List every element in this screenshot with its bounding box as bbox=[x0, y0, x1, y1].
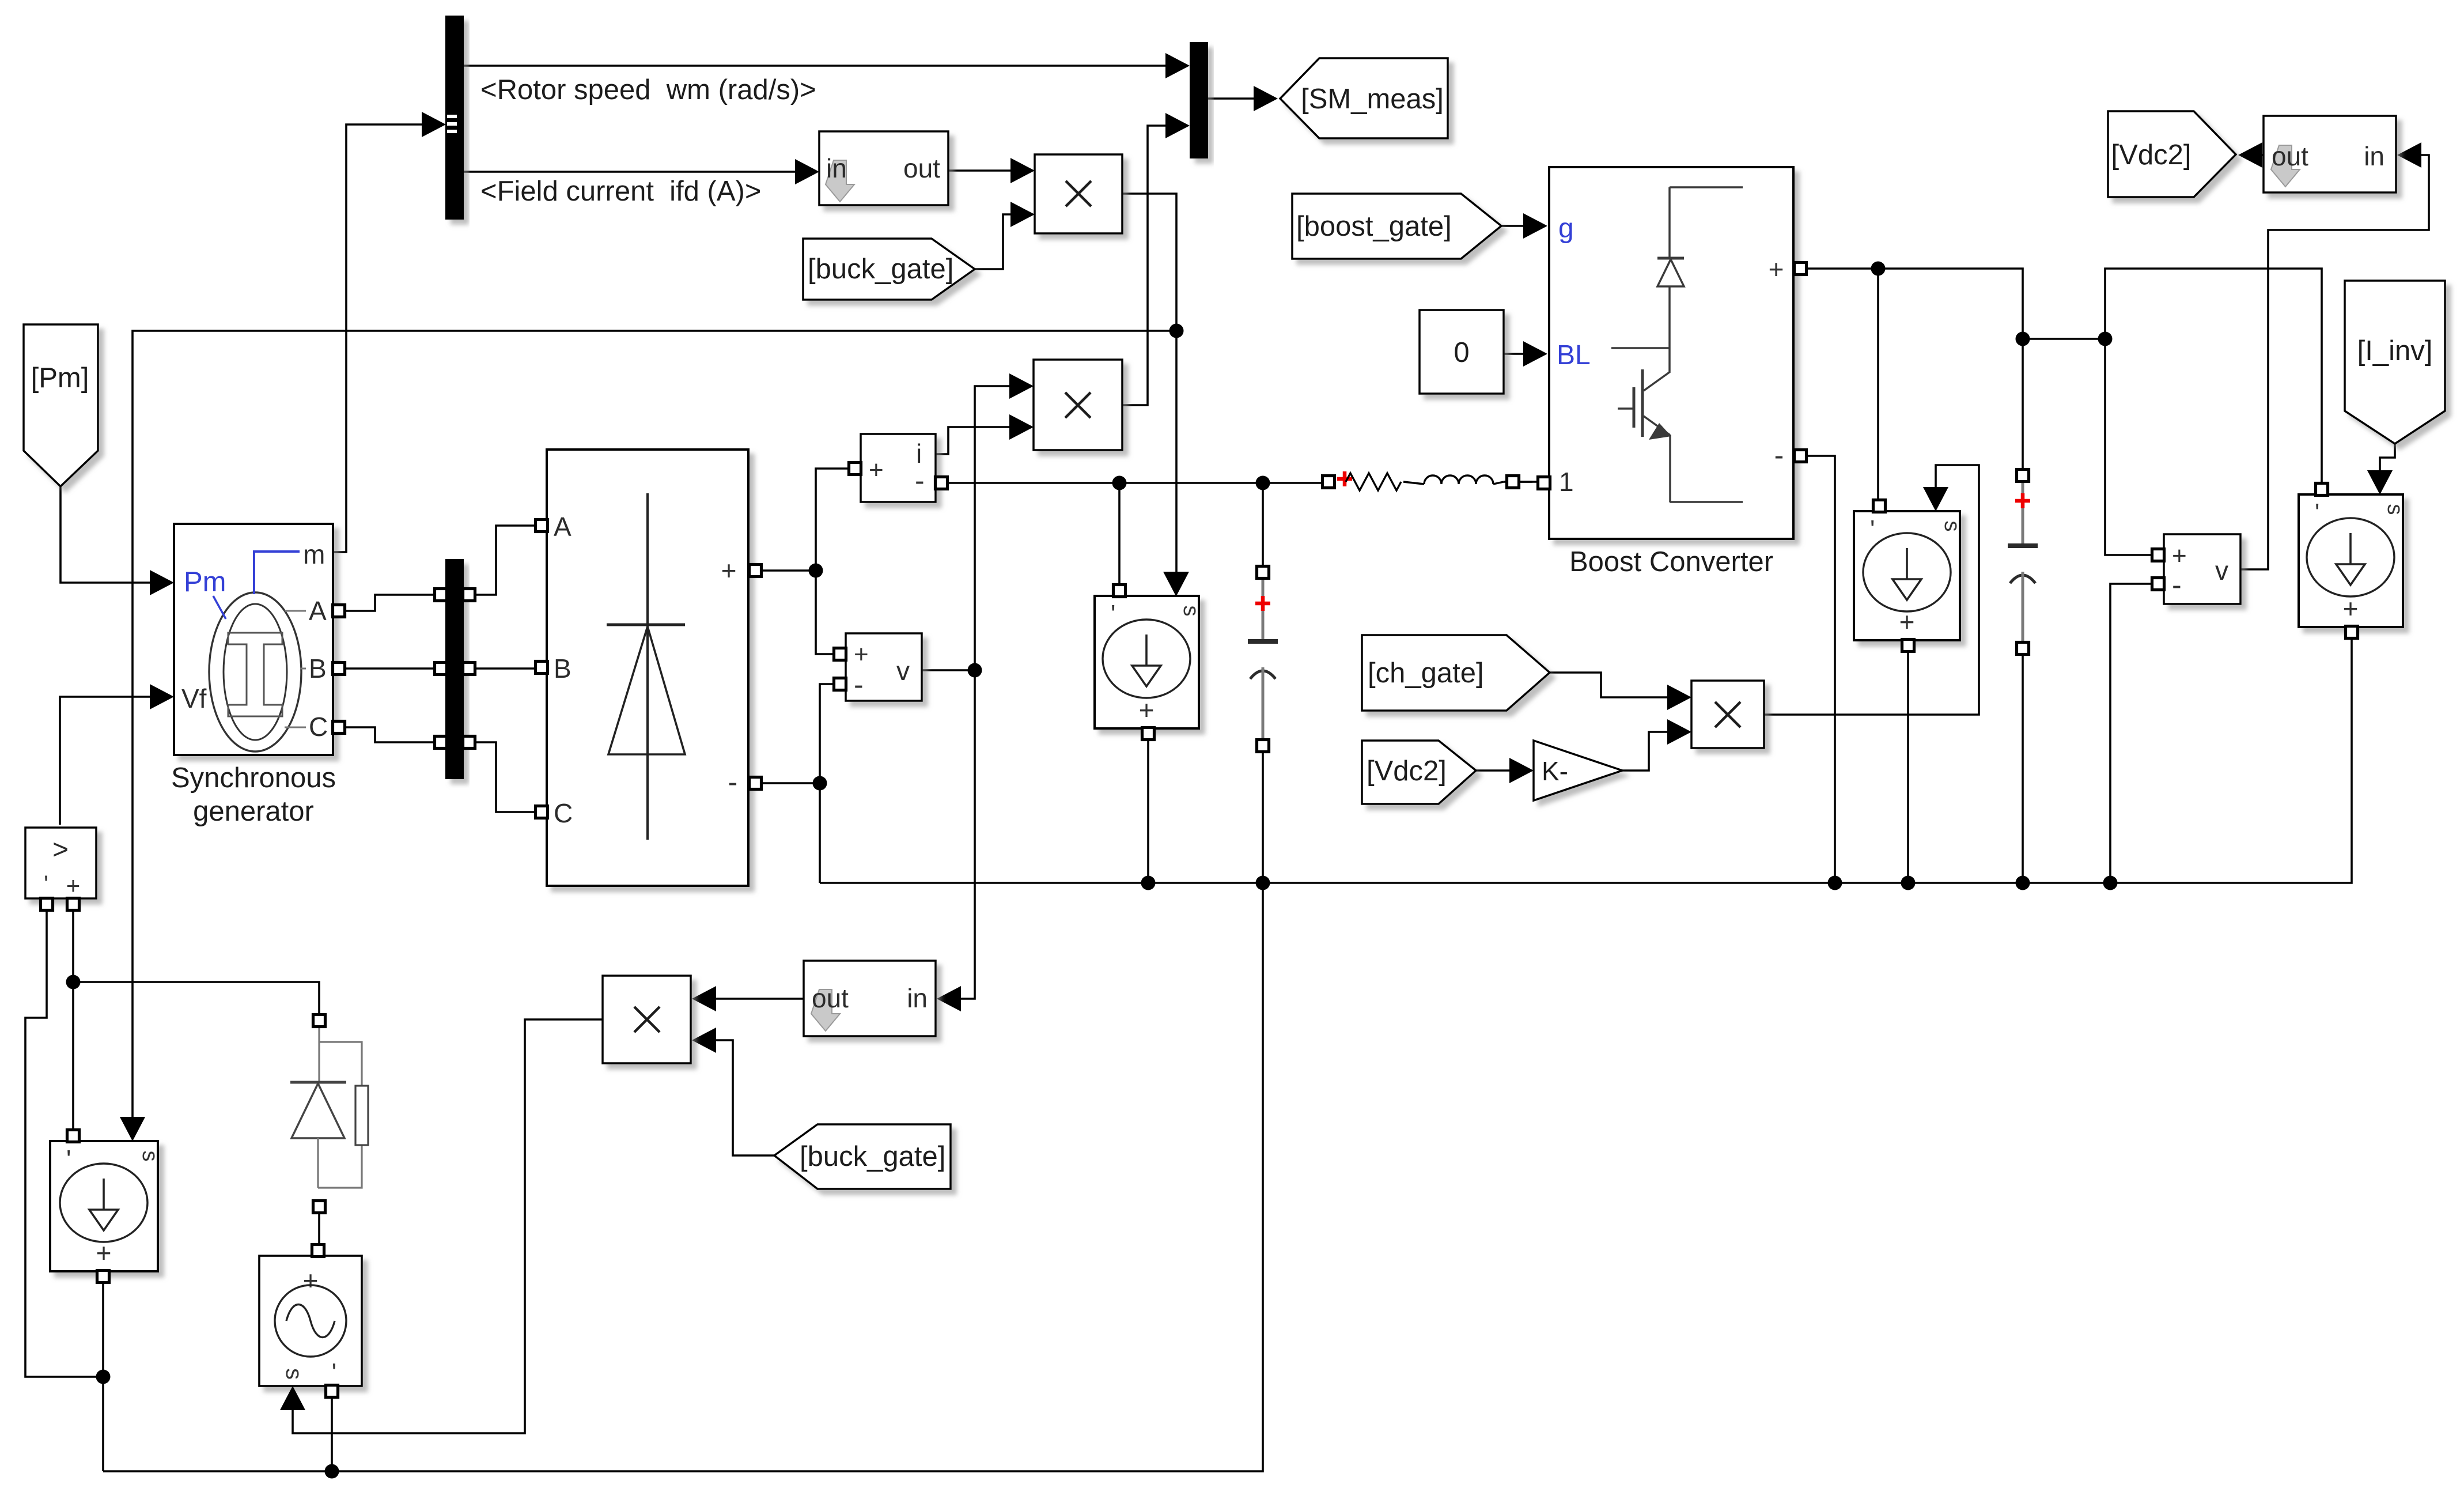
wire mux output to tag [SM_meas] bbox=[1208, 86, 1278, 111]
wire node to current measurement CM1 + input bbox=[816, 469, 848, 571]
wire node v to product X2 input 1 bbox=[975, 373, 1034, 670]
current measurement CM1 bbox=[849, 434, 948, 502]
wire voltage measurement VM2 output to rate transition RT2 in bbox=[2240, 142, 2429, 569]
wire field diode to AC source + bbox=[318, 1213, 320, 1244]
signal label field current bbox=[480, 176, 761, 207]
voltage measurement VM1 bbox=[834, 633, 922, 701]
field diode with snubber resistor bbox=[290, 1015, 368, 1213]
wire current measurement CM1 i-output to product X2 input 2 bbox=[936, 414, 1034, 454]
svg-text:[Pm]: [Pm] bbox=[31, 362, 89, 394]
svg-text:A: A bbox=[309, 596, 327, 626]
svg-text:generator: generator bbox=[193, 796, 314, 827]
current source CS2 bbox=[1095, 572, 1203, 740]
boost converter label bbox=[1569, 546, 1773, 577]
svg-text:s: s bbox=[1179, 606, 1203, 617]
svg-text:+: + bbox=[303, 1266, 319, 1296]
svg-text:K-: K- bbox=[1542, 756, 1568, 786]
current source CS3 bbox=[1854, 487, 1964, 652]
from tag [Pm] bbox=[24, 324, 98, 486]
svg-text:s: s bbox=[1940, 521, 1964, 532]
svg-text:+: + bbox=[721, 556, 737, 586]
wire AC source right terminal to bottom rail bbox=[331, 1397, 333, 1471]
svg-text:Boost Converter: Boost Converter bbox=[1569, 546, 1773, 577]
field voltage source block bbox=[25, 828, 96, 911]
product X4 bbox=[1691, 681, 1764, 748]
from tag [boost_gate] bbox=[1292, 194, 1501, 259]
wire boost + rail right to CS4 left terminal bbox=[2105, 269, 2322, 484]
rate transition RT3 bbox=[804, 961, 936, 1036]
wire Vf source right terminal down bbox=[66, 910, 81, 1130]
wire voltage measurement VM1 output node bbox=[922, 663, 982, 678]
wire boost + rail to VM2 + input bbox=[2105, 339, 2151, 555]
svg-text:[ch_gate]: [ch_gate] bbox=[1368, 658, 1484, 689]
svg-text:in: in bbox=[826, 153, 847, 183]
svg-text:': ' bbox=[1111, 600, 1115, 628]
diode rectifier bridge bbox=[536, 450, 762, 886]
wire DC+ rail to CS2 left terminal bbox=[1118, 483, 1121, 587]
svg-text:v: v bbox=[2215, 556, 2228, 586]
series inductor L bbox=[1403, 475, 1532, 488]
svg-text:s: s bbox=[2383, 504, 2407, 515]
wire capacitor C2 bottom to DC- rail bbox=[2022, 654, 2024, 883]
svg-text:[boost_gate]: [boost_gate] bbox=[1296, 211, 1452, 242]
svg-text:Pm: Pm bbox=[184, 567, 226, 598]
wire tag [I_inv] to current source CS4 s-input bbox=[2367, 444, 2395, 494]
svg-text:[I_inv]: [I_inv] bbox=[2357, 335, 2433, 367]
from tag [buck_gate] bottom bbox=[774, 1124, 951, 1189]
wire Vf source to generator Vf input bbox=[60, 684, 174, 825]
svg-text:B: B bbox=[309, 654, 327, 683]
svg-text:out: out bbox=[903, 153, 940, 183]
wire node v to rate transition RT3 in bbox=[937, 670, 975, 1011]
svg-text:out: out bbox=[812, 983, 849, 1013]
goto tag [SM_meas] bbox=[1280, 58, 1448, 138]
svg-text:Synchronous: Synchronous bbox=[171, 762, 336, 794]
from tag [ch_gate] bbox=[1362, 635, 1550, 711]
current source CS1 bbox=[50, 1117, 162, 1283]
svg-text:-: - bbox=[2172, 569, 2182, 601]
wire capacitor C1 bottom to DC- rail bbox=[1262, 751, 1264, 883]
synchronous generator block bbox=[174, 524, 345, 755]
svg-text:+: + bbox=[1899, 607, 1915, 637]
svg-text:+: + bbox=[869, 456, 884, 484]
wire bar to rectifier C bbox=[475, 742, 535, 812]
svg-text:+: + bbox=[2172, 542, 2187, 570]
svg-text:[Vdc2]: [Vdc2] bbox=[2111, 139, 2192, 171]
svg-text:+: + bbox=[96, 1238, 112, 1268]
svg-text:in: in bbox=[907, 983, 928, 1013]
wire CS3 bottom terminal to DC- rail bbox=[1907, 652, 1909, 883]
synchronous generator label bbox=[171, 762, 336, 827]
wire gain K output to product X4 input 2 bbox=[1622, 719, 1691, 771]
svg-text:': ' bbox=[1870, 515, 1875, 543]
wire constant 0 to boost BL-input bbox=[1504, 341, 1547, 367]
svg-text:-: - bbox=[854, 669, 864, 701]
svg-text:': ' bbox=[44, 870, 48, 897]
from tag [I_inv] bbox=[2345, 281, 2445, 444]
wire DC- rail bbox=[820, 639, 2352, 890]
svg-text:1: 1 bbox=[1559, 467, 1574, 497]
wire tag [Vdc2] to gain K bbox=[1476, 758, 1534, 783]
svg-text:BL: BL bbox=[1557, 340, 1591, 371]
signal label rotor speed bbox=[480, 74, 816, 105]
wire node to field diode branch bbox=[73, 982, 319, 1014]
wire bus selector field-current to rate transition RT1 bbox=[464, 159, 819, 184]
svg-text:in: in bbox=[2364, 141, 2384, 171]
wire CS1 bottom terminal to bottom rail bbox=[102, 1283, 104, 1471]
wire tag [ch_gate] to product X4 input 1 bbox=[1550, 673, 1691, 710]
svg-text:+: + bbox=[854, 640, 869, 669]
wire RL branch to boost input 1 bbox=[1519, 481, 1538, 483]
wire tag [buck_gate] to product X1 input 2 bbox=[975, 202, 1035, 269]
wire tag [Pm] to generator Pm input bbox=[60, 486, 174, 595]
wire tag [buck_gate] bottom to product X3 input 2 bbox=[692, 1028, 774, 1155]
svg-text:': ' bbox=[66, 1145, 71, 1173]
wire product X3 output to AC source s-input bbox=[280, 1019, 603, 1433]
svg-text:s: s bbox=[138, 1151, 162, 1162]
svg-text:A: A bbox=[554, 512, 571, 542]
wire VM1 - input to rectifier - and DC- rail bbox=[813, 684, 834, 883]
wire generator A to bar bbox=[344, 595, 436, 611]
svg-text:-: - bbox=[915, 464, 925, 497]
wire bottom return rail bbox=[103, 883, 1263, 1479]
wire RT3 out to product X3 input 1 bbox=[692, 986, 804, 1011]
svg-text:0: 0 bbox=[1454, 337, 1469, 368]
svg-text:[Vdc2]: [Vdc2] bbox=[1367, 756, 1447, 787]
wire boost + output rail bbox=[1807, 262, 2113, 346]
svg-text:m: m bbox=[303, 539, 325, 569]
wire boost + rail to capacitor C2 bbox=[2022, 339, 2024, 470]
constant 0 bbox=[1420, 310, 1504, 394]
product X2 bbox=[1034, 360, 1122, 450]
wire CS2 bottom terminal to DC- rail bbox=[1147, 740, 1149, 883]
capacitor C2 bbox=[2008, 470, 2038, 655]
bus selector bar bbox=[445, 16, 464, 220]
goto tag [Vdc2] top bbox=[2108, 111, 2236, 197]
from tag [Vdc2] bottom bbox=[1362, 741, 1476, 804]
svg-text:-: - bbox=[1774, 439, 1784, 471]
wire DC+ rail CM1 - to RL branch bbox=[947, 476, 1323, 490]
wire product X4 output to current source CS3 s-input bbox=[1764, 465, 1979, 715]
svg-text:v: v bbox=[896, 656, 910, 686]
svg-text:C: C bbox=[554, 798, 573, 828]
svg-text:B: B bbox=[554, 654, 571, 683]
svg-text:+: + bbox=[1139, 695, 1155, 725]
wire generator C to bar bbox=[344, 727, 436, 742]
svg-text:+: + bbox=[2343, 594, 2359, 624]
wire boost + rail to CS3 left terminal bbox=[1877, 269, 1879, 502]
svg-text:out: out bbox=[2272, 141, 2308, 171]
gain K bbox=[1534, 741, 1622, 800]
wire generator B to bar bbox=[344, 667, 436, 670]
product X3 bbox=[603, 976, 691, 1063]
wire node at (2042,574) to current source CS1 s-input bbox=[120, 331, 1176, 1141]
svg-text:': ' bbox=[332, 1358, 336, 1387]
svg-text:[SM_meas]: [SM_meas] bbox=[1301, 84, 1444, 115]
wire node to voltage measurement VM1 + input bbox=[816, 571, 834, 654]
svg-text:s: s bbox=[281, 1368, 306, 1380]
svg-text:[buck_gate]: [buck_gate] bbox=[808, 254, 953, 285]
svg-text:C: C bbox=[309, 712, 328, 742]
capacitor C1 bbox=[1248, 567, 1278, 752]
boost converter block bbox=[1538, 167, 1807, 539]
wire tag [boost_gate] to boost g-input bbox=[1501, 213, 1547, 239]
mux bar bbox=[1190, 42, 1208, 158]
current source CS4 bbox=[2299, 470, 2407, 639]
wire Vf source left terminal loop bbox=[25, 910, 111, 1384]
rate transition RT1 bbox=[819, 131, 948, 205]
svg-text:': ' bbox=[2315, 498, 2319, 527]
product X1 bbox=[1035, 154, 1122, 233]
wire rectifier - output bbox=[762, 782, 820, 784]
AC voltage source bbox=[259, 1245, 362, 1411]
wire bus selector rotor-speed to mux input 1 bbox=[464, 53, 1190, 78]
from tag [buck_gate] top bbox=[803, 239, 975, 300]
wire RT2 out to tag [Vdc2] top bbox=[2238, 142, 2264, 168]
wire RT1 out to product X1 input 1 bbox=[948, 158, 1035, 183]
svg-text:[buck_gate]: [buck_gate] bbox=[800, 1141, 945, 1172]
wire product X2 output to mux input 2 bbox=[1122, 113, 1190, 405]
svg-text:>: > bbox=[52, 834, 69, 865]
svg-text:+: + bbox=[66, 872, 81, 899]
svg-text:g: g bbox=[1558, 213, 1574, 244]
wire bar to rectifier A bbox=[475, 526, 535, 595]
voltage measurement VM2 bbox=[2152, 534, 2241, 604]
three-phase bar bbox=[435, 559, 475, 779]
svg-text:Vf: Vf bbox=[181, 683, 207, 713]
wire DC+ rail to capacitor C1 bbox=[1262, 483, 1264, 567]
svg-text:<Field current ifd (A)>: <Field current ifd (A)> bbox=[480, 176, 761, 207]
wire rectifier + to measurement node bbox=[762, 564, 823, 578]
svg-text:<Rotor speed wm (rad/s)>: <Rotor speed wm (rad/s)> bbox=[480, 74, 816, 105]
wire bar to rectifier B bbox=[475, 667, 535, 670]
wire product X1 output to current source CS2 s-input bbox=[1122, 194, 1189, 596]
svg-text:-: - bbox=[728, 766, 738, 798]
series resistor R bbox=[1323, 471, 1402, 490]
rate transition RT2 bbox=[2264, 116, 2396, 192]
svg-text:+: + bbox=[1769, 254, 1784, 284]
wire boost - output down bbox=[1807, 456, 1835, 883]
wire VM2 - input down bbox=[2110, 584, 2152, 883]
wire m output of generator to bus selector bbox=[333, 112, 446, 552]
